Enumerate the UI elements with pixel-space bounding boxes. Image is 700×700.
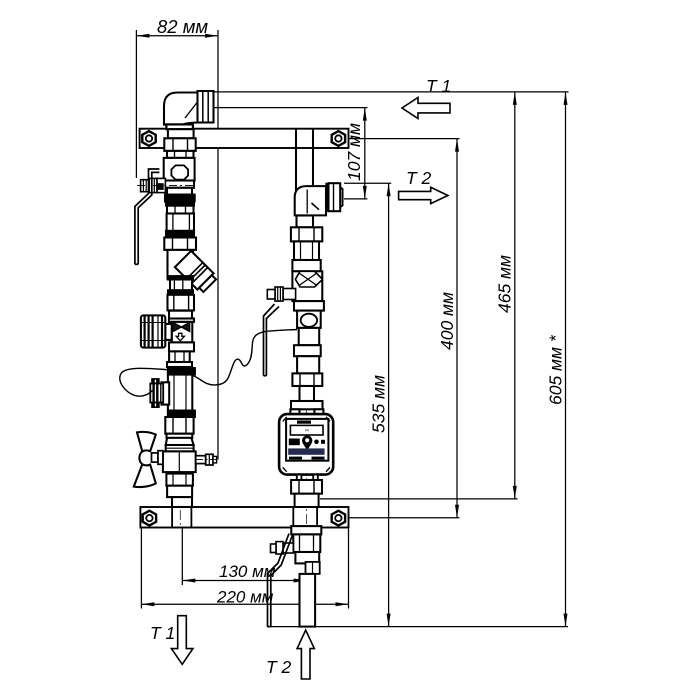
extension line left of 82mm [135, 30, 137, 178]
union hex [168, 129, 194, 138]
HEAT METER [279, 414, 333, 507]
centerline left column [179, 96, 181, 525]
T1 top reference line [213, 91, 569, 93]
union below meter [291, 480, 322, 494]
pipe [297, 356, 319, 373]
lever handle of valve B2 [264, 304, 280, 376]
lower connector [170, 280, 192, 291]
pipe [169, 311, 192, 322]
drain spout right [196, 456, 206, 464]
black gasket band [168, 411, 195, 417]
svg-text:T 2: T 2 [266, 657, 292, 677]
T1 port centerline extension [213, 107, 367, 109]
valve neck [167, 151, 194, 158]
sensor bolt stack on valve B3 [271, 542, 294, 554]
LEFT COLUMN [134, 91, 219, 527]
meter body U1 [279, 414, 333, 475]
ribbed flange knob left [152, 379, 159, 384]
arrowhead 107mm top [363, 108, 367, 121]
svg-text:T 1: T 1 [150, 623, 175, 643]
valve B2 bottom [294, 301, 324, 311]
dimension 130mm line [182, 580, 306, 582]
dimension 107mm line [364, 108, 366, 199]
support stub pipe from bracket [295, 129, 297, 191]
dimension 465mm line [514, 92, 516, 499]
svg-text:220 мм: 220 мм [216, 588, 274, 607]
union nut [291, 227, 322, 241]
dimension 400mm line [456, 139, 458, 518]
sensor bolt stack on valve B2 [267, 287, 295, 301]
svg-text:400 мм: 400 мм [437, 292, 457, 350]
flow arrow T1 bottom pointing down [171, 616, 193, 665]
flow arrow T2 bottom pointing up [297, 630, 314, 679]
logo marks [289, 439, 300, 446]
washer on elbow L2 [326, 183, 329, 211]
flow arrow T2 right pointing right [399, 187, 448, 203]
ball octagon B1 [171, 165, 188, 179]
ball valve B2 body [292, 271, 322, 301]
arrowhead 130mm left [182, 579, 195, 583]
gasket rings [166, 231, 194, 233]
lever handle of valve B3 [268, 534, 293, 627]
flange stub [162, 382, 170, 404]
black gasket band [168, 368, 195, 375]
knurled knob [141, 315, 165, 347]
dimension 535mm line [388, 183, 390, 626]
T2 port top edge extension [344, 182, 391, 184]
svg-text:465 мм: 465 мм [495, 255, 515, 313]
pipe through bracket [292, 507, 294, 528]
bottom mounting bracket [140, 507, 348, 528]
pipe [299, 328, 320, 345]
sensor cable [120, 330, 297, 397]
strainer cap [199, 275, 216, 292]
valve B1 lower bands [165, 181, 194, 188]
arrowhead 535mm bottom [387, 614, 391, 627]
dimension 82mm line [136, 35, 218, 37]
465mm bottom extension line [320, 498, 518, 500]
arrowhead 465mm bottom [513, 486, 517, 499]
arrowhead 130mm right [294, 579, 307, 583]
label band [288, 448, 324, 454]
bottom extension line at 626 [267, 626, 568, 628]
dimension 605mm line [565, 92, 567, 627]
strainer top pipe [168, 250, 194, 279]
top mounting bracket [140, 129, 349, 148]
pipe with inner lines [168, 375, 192, 411]
ribbed coupling below valve B1 [166, 202, 194, 206]
meter inlet pipe [300, 386, 315, 401]
arrowhead 82mm left [136, 34, 149, 38]
valve B3 body [293, 534, 320, 552]
arrowhead 107mm bottom [363, 186, 367, 199]
220mm left extension [140, 528, 142, 609]
union nut [165, 417, 193, 434]
butterfly wings handle [137, 432, 156, 452]
butterfly valve body [163, 451, 196, 472]
ball octagon B2 [296, 271, 323, 287]
Y-strainer angled body [175, 251, 214, 290]
bottom bolt centerline extension [346, 517, 460, 519]
bottom bracket left bolt [143, 511, 156, 526]
union nut on elbow [198, 91, 214, 123]
svg-text:535 мм: 535 мм [369, 375, 389, 433]
flow arrow T1 top pointing left [402, 98, 450, 119]
arrowhead 605mm top [564, 92, 568, 105]
extension line right of 82mm [217, 30, 219, 460]
union nut [292, 373, 322, 386]
top bracket left bolt [142, 131, 155, 146]
ring below elbow [166, 124, 193, 129]
union nut [169, 351, 190, 367]
valve B3 top fitting [291, 526, 321, 534]
short pipe below elbow [297, 216, 314, 228]
valve stem left [165, 324, 171, 340]
pipe [294, 241, 319, 260]
union nut on elbow L2 [329, 183, 341, 211]
dimension 220mm line [141, 603, 348, 605]
svg-text:T 1: T 1 [426, 76, 451, 96]
arrowhead 400mm top [455, 139, 459, 152]
union nut [168, 295, 195, 311]
right pipe centerline extension down [306, 552, 308, 585]
outlet pipe T2 [300, 574, 316, 627]
butterfly valve neck [167, 434, 193, 438]
svg-text:605 мм *: 605 мм * [546, 334, 566, 405]
pipe through bracket [171, 507, 173, 527]
arrowhead 465mm top [513, 92, 517, 105]
arrowhead 82mm right [205, 34, 218, 38]
cable from right sensor boss to left column [120, 330, 297, 397]
sensor boss with ellipse [297, 311, 321, 328]
ball valve B1 body [164, 158, 195, 181]
valve B2 neck [292, 260, 320, 271]
union nut [164, 238, 196, 250]
arrowhead 605mm bottom [564, 614, 568, 627]
larger hex [164, 138, 195, 151]
elbow L2 right column [295, 186, 326, 215]
T2 port centerline extension [344, 198, 367, 200]
left pipe end extension down [181, 528, 183, 586]
LOWER RIGHT VALVE [268, 507, 322, 627]
bowtie symbol [173, 323, 190, 332]
lever handle of valve B1 [135, 169, 160, 264]
bottom ticks [289, 457, 302, 460]
pipe section [167, 214, 194, 231]
display window [290, 425, 323, 435]
dark band [168, 290, 193, 295]
valve B3 bottom [295, 552, 319, 563]
drain cap right [306, 562, 320, 574]
pipe to bracket [295, 494, 319, 507]
balancing valve body [169, 319, 194, 322]
bolt axis centerline [137, 185, 196, 187]
arrowhead 535mm top [387, 183, 391, 196]
top bracket right bolt [332, 131, 345, 146]
arrowhead 400mm bottom [455, 505, 459, 518]
valve bottom bands [169, 342, 194, 351]
220mm right extension [348, 528, 350, 609]
elbow L1 top left [164, 93, 198, 125]
svg-text:T 2: T 2 [406, 168, 432, 188]
arrowhead 220mm left [141, 602, 154, 606]
svg-text:82 мм: 82 мм [157, 16, 208, 37]
flow arrow in strainer [177, 267, 183, 274]
RIGHT COLUMN [264, 129, 343, 550]
coupling [294, 345, 321, 356]
dark band below strainer [168, 276, 193, 279]
meter outlet legs [297, 475, 318, 480]
top bolt centerline extension [346, 138, 460, 140]
location pin icon [302, 435, 312, 445]
sensor bolt stack on valve B1 [141, 178, 166, 192]
bottom bracket right bolt [332, 511, 345, 526]
centerline right column [306, 190, 308, 550]
arrowhead 220mm right [336, 602, 349, 606]
